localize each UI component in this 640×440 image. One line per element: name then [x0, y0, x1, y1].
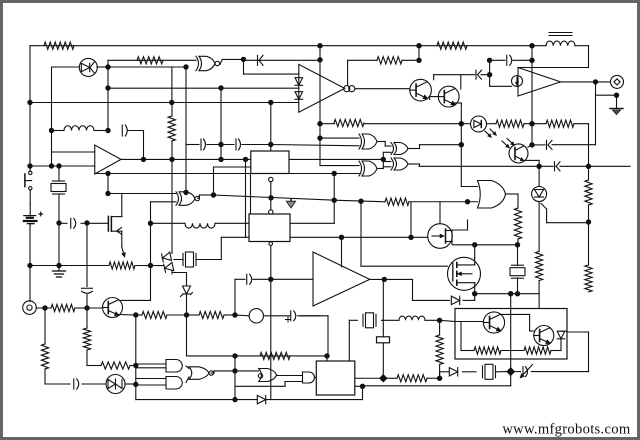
- wire x=539 to thyristor: [538, 160, 540, 186]
- wire vertical x=51.5 lower: [51, 131, 53, 167]
- wire y=173.5 right to gate D: [289, 173, 359, 175]
- node D6: [515, 242, 520, 247]
- resistor R14: [536, 252, 543, 281]
- wire y=60 cap C3 net: [244, 59, 321, 61]
- U5 output bubble: [269, 177, 273, 181]
- wire vertical x=595.5: [595, 82, 597, 145]
- wire to crystal X2: [174, 259, 183, 261]
- wire box U5 to box U6: [250, 174, 252, 215]
- wire vertical x=51.5: [51, 67, 53, 131]
- wire U2 out to node: [222, 58, 243, 60]
- resistor R16: [51, 304, 75, 311]
- AND gate U12b: [166, 377, 182, 390]
- wire FET Q7 to corner: [452, 229, 468, 231]
- wire R14 down: [538, 281, 540, 294]
- wire vertical x=108: [107, 60, 109, 130]
- wire vertical x=187: [186, 315, 188, 356]
- wire gate D out: [377, 168, 383, 170]
- resistor R8: [496, 120, 524, 127]
- zener D8: [181, 286, 193, 297]
- wire FET Q7 top riser: [439, 202, 441, 224]
- wire vertical x=489.6: [489, 60, 491, 86]
- wire diamond to trimmer C16: [515, 371, 521, 373]
- wire cap C13 right: [298, 315, 321, 317]
- lamp LP1: [249, 309, 263, 323]
- node C9: [529, 43, 534, 48]
- wire U8 internal: [461, 314, 567, 350]
- wire to gate C input 2 jog: [383, 166, 391, 168]
- diode D11: [449, 368, 457, 376]
- crystal X1: [51, 181, 66, 194]
- node C10: [529, 58, 534, 63]
- node C11: [529, 121, 534, 126]
- op-amp U1: [95, 145, 121, 174]
- JFET Q9: [108, 216, 125, 256]
- switch SW1: [25, 166, 32, 204]
- crystal X4: [363, 313, 376, 328]
- transistor Q3: [103, 298, 123, 318]
- wire y=266 MOSFET gate: [361, 265, 448, 267]
- LED D1 (circled diode): [79, 58, 97, 76]
- resistor R17: [142, 311, 167, 318]
- node B16: [183, 190, 188, 195]
- wire to R22: [439, 320, 441, 335]
- cursor arrow (gray): [286, 199, 295, 208]
- wire y=356 left: [187, 355, 236, 357]
- wire top rail y=46: [30, 45, 546, 47]
- IC box U7: [316, 361, 355, 395]
- wire y=222: [547, 222, 589, 224]
- node B23: [232, 368, 237, 373]
- wire vertical x=245.5: [245, 159, 247, 237]
- wire gate A out: [377, 141, 385, 143]
- node A11: [84, 305, 89, 310]
- stub: [171, 273, 173, 275]
- wire to cap C14: [45, 383, 70, 385]
- wire y=124 to R7: [320, 123, 335, 125]
- wire vertical x=341.5: [341, 237, 343, 267]
- wire vertical x=87 lower: [86, 295, 88, 309]
- wire y=60 to gate U2: [108, 59, 196, 61]
- wire to gate C input 1: [383, 161, 391, 163]
- svg-text:www.mfgrobots.com: www.mfgrobots.com: [502, 422, 631, 438]
- resistor R3: [334, 119, 364, 126]
- wire to crystal X4: [349, 319, 357, 321]
- wire to node x=235: [214, 370, 235, 372]
- wire lamp to cap C13: [264, 315, 290, 317]
- LED D5 (photodiode): [471, 116, 497, 137]
- IC box U6: [249, 214, 290, 242]
- wire stub: [439, 372, 441, 378]
- wire y=60 to R4: [348, 59, 377, 61]
- wire Q3 emitter: [119, 314, 136, 317]
- wire box U6 stub y=223.3: [290, 222, 334, 224]
- node C17: [332, 198, 337, 203]
- resistor R1: [44, 42, 74, 49]
- wire to lamp: [235, 314, 249, 317]
- wire y=74.7 cap C7 net: [434, 74, 475, 76]
- wire y=67.5 into U4: [518, 67, 589, 69]
- wire thyristor jog: [541, 204, 547, 210]
- wire y=159 box U5 to gate node: [290, 158, 383, 160]
- node B7: [218, 157, 223, 162]
- wire FET Q7 drain: [453, 244, 475, 246]
- wire y=167 into box U5: [214, 166, 251, 168]
- wire cap C7 to node: [481, 74, 490, 76]
- U6 output bubble: [269, 242, 273, 246]
- wire jog down: [362, 386, 364, 399]
- wire to R23: [383, 377, 397, 379]
- node D12: [437, 376, 442, 381]
- crystal X5: [483, 364, 496, 379]
- wire jog: [213, 371, 215, 373]
- capacitor C3: [258, 55, 264, 65]
- resistor R2: [137, 57, 163, 64]
- wire gate A input 1: [320, 137, 359, 139]
- wire U3 out to Q1 base: [355, 88, 410, 90]
- node B5: [218, 85, 223, 90]
- wire U13 out to U14: [277, 375, 303, 377]
- resistor R18: [199, 311, 224, 318]
- wire y=386.3: [235, 385, 285, 387]
- node C16: [332, 171, 337, 176]
- ground GND1: [53, 269, 66, 277]
- wire x=172 down to diodes: [171, 159, 173, 252]
- wire y=279 left: [235, 278, 245, 280]
- wire U11 input B: [151, 201, 177, 203]
- wire vertical x=588.5: [588, 124, 590, 167]
- resistor R11: [385, 198, 409, 205]
- wire vertical x=419: [418, 46, 420, 61]
- node A9: [27, 263, 32, 268]
- transistor Q4: [483, 312, 504, 333]
- wire into box Q4 base a: [440, 320, 455, 321]
- wire AND1 input A: [136, 363, 166, 365]
- node D7: [472, 291, 477, 296]
- current source U4b: [512, 76, 523, 87]
- wire OR U10 output: [506, 193, 519, 195]
- node C22: [593, 79, 598, 84]
- node A7: [84, 220, 89, 225]
- node B25: [133, 363, 138, 368]
- wire vertical x=221.3: [220, 237, 222, 259]
- wire x=511 lower: [510, 372, 512, 386]
- wire diode D10 right: [266, 399, 363, 401]
- wire bottom to diode D10: [235, 399, 257, 401]
- node D9: [515, 291, 520, 296]
- node C12: [529, 142, 534, 147]
- resistor R22: [436, 335, 443, 365]
- wire crystal X5 to diamond: [497, 371, 507, 373]
- wire JFET drain riser: [121, 194, 123, 217]
- capacitor C5: [236, 139, 241, 150]
- wire Q2 collector riser: [460, 75, 462, 89]
- node B4: [183, 64, 188, 69]
- wire gate C out: [408, 163, 419, 165]
- wire cap C2 to corner: [128, 130, 144, 132]
- wire vertical x=186: [185, 67, 187, 192]
- resistor R12: [585, 180, 592, 205]
- node B13: [141, 157, 146, 162]
- node C19: [465, 199, 470, 204]
- wire y=265.5 right: [135, 265, 164, 267]
- node A5: [56, 163, 61, 168]
- wire cap C5 to node: [242, 144, 271, 146]
- MOSFET Q6 (circled): [448, 257, 481, 293]
- op-amp U3: [299, 64, 345, 112]
- node B1: [105, 64, 110, 69]
- wire vertical x=271 long: [270, 279, 272, 399]
- wire U11 output to node: [199, 194, 213, 196]
- node C4: [317, 135, 322, 140]
- diode D10: [257, 395, 265, 403]
- wire vertical x=243.5: [243, 59, 245, 74]
- capacitor C9: [547, 140, 553, 149]
- wire node to L3: [151, 222, 186, 224]
- wire y=88: [108, 87, 299, 89]
- diode D3: [295, 92, 303, 100]
- node C15: [381, 157, 386, 162]
- wire vertical x=213.5: [213, 167, 215, 195]
- wire cap C8 to node: [513, 59, 532, 61]
- LED D9 (diac): [106, 375, 125, 394]
- wire R9 to corner: [574, 123, 589, 125]
- crystal X3: [510, 265, 525, 278]
- wire vertical x=532: [531, 46, 533, 145]
- wire U9 output: [370, 278, 413, 280]
- node B19: [268, 277, 273, 282]
- node A6: [56, 220, 61, 225]
- transistor Q2: [438, 86, 459, 107]
- wire jog down x=412.5: [412, 279, 414, 300]
- wire U2 output jog: [220, 59, 222, 64]
- capacitor C6: [82, 288, 93, 293]
- wire y=173.5 left: [95, 173, 251, 175]
- resistor R15: [585, 265, 592, 292]
- node C8: [487, 72, 492, 77]
- wire box U7 right stub: [355, 385, 363, 387]
- wire bottom y=400 left: [136, 399, 235, 401]
- wire LED1 left: [52, 66, 80, 68]
- node C5: [416, 43, 421, 48]
- node D2: [408, 235, 413, 240]
- wire box U7 to node: [355, 377, 383, 379]
- capacitor C10: [71, 218, 76, 228]
- wire to node x=461: [420, 144, 462, 146]
- op-amp U4: [518, 68, 561, 97]
- wire gate U14 input B: [285, 381, 303, 383]
- capacitor C8: [507, 55, 512, 65]
- wire to R20: [87, 365, 101, 367]
- FET Q7 (circled): [428, 224, 453, 249]
- wire to R17: [136, 314, 142, 316]
- wire R13 to node: [517, 239, 519, 246]
- wire into box U6: [221, 236, 250, 238]
- diamond junction N2: [379, 374, 387, 382]
- node B12: [169, 157, 174, 162]
- node B2: [105, 85, 110, 90]
- wire R7 to node: [364, 123, 461, 125]
- wire y=294: [475, 293, 539, 295]
- wire U1 output y=159: [121, 158, 251, 160]
- wire R18 to node: [224, 314, 235, 316]
- wire R5 to output net: [171, 141, 173, 159]
- wire to diode D11: [440, 371, 449, 373]
- wire y=74 opamp U3 input: [244, 73, 299, 75]
- wire vertical x=546.6: [546, 209, 548, 223]
- node B22: [232, 353, 237, 358]
- wire to gate B input 1: [385, 145, 391, 147]
- wire left vertical x=30: [29, 46, 31, 169]
- wire stub: [545, 45, 547, 47]
- wire y=279 right: [271, 278, 313, 280]
- inductor L1 with core: [546, 33, 575, 46]
- capacitor C13 (polarized): [286, 311, 296, 322]
- wire AND1 input B: [136, 367, 166, 369]
- node C21: [586, 164, 591, 169]
- wire vertical x=411: [410, 202, 412, 237]
- wire L3 to box U6: [215, 222, 249, 224]
- AND gate U12a: [166, 360, 182, 373]
- node B3: [105, 128, 110, 133]
- wire y=201 mid: [334, 200, 384, 202]
- node A10: [42, 305, 47, 310]
- wire vertical x=588.5 top: [588, 46, 590, 68]
- gate A (XOR): [359, 134, 377, 149]
- node A8: [56, 263, 61, 268]
- wire opamp U1 input B: [30, 165, 95, 167]
- wire Q1 emitter to Q2 base: [430, 96, 439, 98]
- wire cap C14 to LED D9: [82, 383, 106, 385]
- wire vertical x=511: [510, 294, 512, 372]
- wire vertical x=235 upper: [234, 279, 236, 315]
- wire vertical x=87 upper: [86, 223, 88, 287]
- gate C (XOR): [391, 158, 408, 170]
- wire to Q3 base: [87, 307, 103, 309]
- wire LED D9 to node: [125, 383, 136, 385]
- trimmer capacitor C16: [521, 365, 533, 378]
- node B20: [232, 312, 237, 317]
- wire to ground node: [596, 94, 617, 96]
- wire R17 to node: [167, 314, 187, 316]
- wire vertical x=172 upper: [171, 68, 173, 103]
- wire x=45 down: [44, 308, 46, 344]
- wire y=145 to cap C9: [532, 144, 545, 146]
- wire vertical x=383.3: [382, 152, 384, 168]
- wire Q1 collector riser: [433, 75, 435, 80]
- wire NOR3 out: [211, 372, 214, 374]
- wire R20 to node: [130, 365, 136, 367]
- node B14: [105, 171, 110, 176]
- wire y=245: [475, 244, 518, 246]
- wire vertical x=271 into U5 box: [270, 103, 272, 152]
- resistor R6: [437, 42, 467, 49]
- gate D (XOR): [359, 161, 377, 176]
- node D10: [324, 353, 329, 358]
- capacitor C12: [247, 274, 252, 284]
- wire R5 top: [171, 103, 173, 117]
- wire cap C13 to corner: [301, 315, 328, 317]
- wire rect cap up... actually from 279: [382, 330, 384, 337]
- node A2: [27, 163, 32, 168]
- wire y=265.5: [30, 265, 109, 267]
- node B6: [218, 142, 223, 147]
- wire y=145 cap C9 right: [552, 144, 596, 146]
- wire y=144.5 to cap C4: [186, 144, 199, 146]
- wire R4 to node: [402, 59, 419, 61]
- diode pair D7: [162, 252, 174, 273]
- wire thyristor to R14: [538, 202, 540, 252]
- node D15: [169, 100, 174, 105]
- wire U6 bubble down: [270, 245, 272, 279]
- resistor R5: [168, 116, 175, 141]
- wire y=166 right: [560, 165, 630, 167]
- wire to R13: [517, 194, 519, 208]
- wire R8 to R9: [524, 123, 546, 125]
- wire U14 out to box U7: [315, 377, 316, 379]
- wire Q3 collector: [121, 299, 151, 301]
- node B17: [211, 192, 216, 197]
- wire vertical x=136 upper: [135, 315, 137, 366]
- wire gate U13 input A: [235, 370, 259, 372]
- wire U11 output jog: [198, 195, 200, 198]
- op-amp U3 output bubbles: [344, 86, 355, 92]
- wire y=166 long: [419, 165, 553, 167]
- wire trimmer to corner: [532, 371, 589, 373]
- wire jog down: [419, 164, 421, 166]
- capacitor C15: [555, 162, 561, 171]
- node B26: [133, 382, 138, 387]
- op-amp U9: [313, 252, 370, 306]
- wire to zener: [186, 273, 188, 287]
- wire LED1 right: [97, 66, 108, 68]
- wire U5 bubble to U6 box: [270, 182, 272, 213]
- wire into box top: [538, 294, 540, 309]
- capacitor C2: [122, 125, 127, 136]
- inductor L4: [399, 316, 425, 320]
- wire gate D input 1: [320, 165, 359, 167]
- battery BT1: [24, 204, 43, 226]
- node D1: [339, 235, 344, 240]
- node B8: [241, 57, 246, 62]
- node D3: [382, 277, 387, 282]
- wire FET Q6 drain riser top: [474, 245, 476, 258]
- U6 input bubble: [269, 210, 273, 214]
- resistor R23: [397, 375, 427, 382]
- node C2: [317, 57, 322, 62]
- wire jog: [384, 142, 386, 147]
- node C14: [459, 142, 464, 147]
- wire to LED D5: [461, 123, 470, 125]
- wire vertical x=461: [460, 103, 462, 187]
- wire sloped net to gate node: [214, 195, 335, 200]
- output connector J2: [611, 75, 624, 88]
- wire crystal X2 right: [196, 259, 221, 261]
- node A12: [133, 312, 138, 317]
- NOR gate U12c: [189, 367, 214, 380]
- AND gate U14: [303, 372, 315, 383]
- wire phototransistor emitter: [525, 159, 539, 161]
- node D8: [508, 291, 513, 296]
- gate U11 (XNOR): [176, 192, 200, 206]
- resistor R24: [260, 352, 290, 359]
- wire L4 to node: [425, 319, 440, 321]
- resistor R25 (in U8): [474, 347, 501, 354]
- inductor L2: [64, 126, 94, 131]
- node C3: [317, 121, 322, 126]
- wire to gate B input 2: [383, 151, 391, 153]
- wire cap C4 to cap C5: [207, 144, 234, 146]
